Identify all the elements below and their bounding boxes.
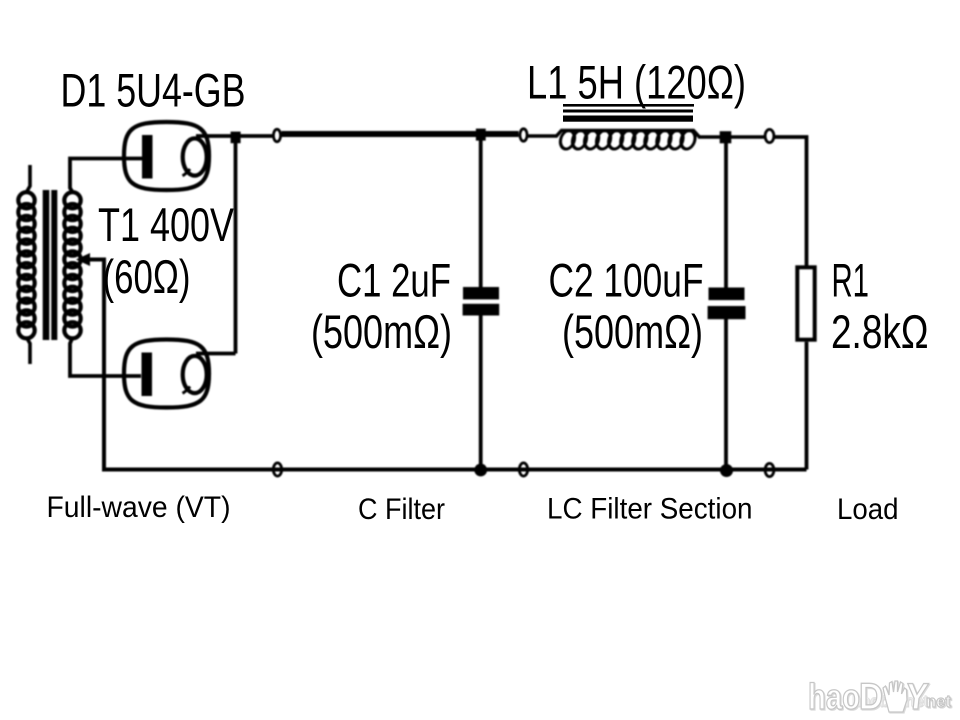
node port circle bottom right	[765, 463, 774, 476]
inductor L1 top line	[556, 131, 699, 137]
svg-text:Full-wave (VT): Full-wave (VT)	[47, 491, 231, 524]
junction C2 bottom	[720, 464, 733, 477]
svg-text:R1: R1	[832, 254, 870, 307]
tube D1 plate B	[142, 353, 153, 397]
watermark hand icon	[883, 681, 907, 712]
svg-text:Load: Load	[837, 493, 899, 526]
watermark haoDIY.net	[808, 675, 951, 717]
tube D1 cathode A tail	[183, 169, 191, 176]
svg-text:C1 2uF: C1 2uF	[337, 254, 451, 307]
junction cathode node	[231, 132, 241, 144]
wire L1 to junction	[698, 135, 722, 139]
inductor L1 core thin line	[563, 110, 693, 113]
svg-text:D: D	[859, 676, 883, 717]
node port circle left top	[273, 129, 280, 141]
inductor L1 loops	[559, 131, 696, 149]
wire secondary top lead to tube plate	[70, 159, 142, 193]
wire C1 top vertical	[479, 137, 483, 288]
capacitor C2 top plate	[709, 288, 745, 301]
tube D1 section B envelope	[124, 340, 209, 408]
wire C1 bottom vertical	[479, 316, 483, 470]
wire top bus thick segment 1	[282, 131, 478, 137]
svg-text:(60Ω): (60Ω)	[103, 250, 191, 303]
svg-text:D1 5U4-GB: D1 5U4-GB	[61, 64, 246, 117]
node port circle before L1	[520, 129, 527, 141]
node port circle bottom left	[273, 463, 281, 476]
junction C1 bottom	[474, 464, 487, 477]
wire junction to port	[731, 135, 765, 139]
node port circle bottom middle	[519, 463, 527, 476]
svg-text:L1 5H (120Ω): L1 5H (120Ω)	[527, 56, 746, 109]
svg-text:C2 100uF: C2 100uF	[549, 254, 704, 307]
wire to R1 top corner	[775, 137, 807, 266]
svg-text:LC Filter Section: LC Filter Section	[547, 493, 753, 526]
wire C2 bottom vertical	[724, 319, 728, 470]
inductor L1 core thick line	[563, 116, 693, 122]
junction C1 top	[476, 129, 486, 141]
svg-text:net: net	[926, 692, 951, 711]
wire cathode bus vertical	[234, 137, 238, 354]
svg-text:hao: hao	[808, 676, 860, 717]
wire to L1	[528, 134, 558, 138]
svg-text:2.8kΩ: 2.8kΩ	[831, 305, 929, 358]
transformer T1 primary top lead	[27, 165, 31, 192]
wire center tap to ground riser	[86, 260, 104, 470]
wire secondary bottom lead to tube plate	[70, 338, 141, 377]
capacitor C2 bottom plate	[708, 306, 746, 319]
capacitor C1 bottom plate	[463, 304, 500, 316]
svg-text:(500mΩ): (500mΩ)	[311, 305, 452, 358]
tube D1 cathode B	[183, 356, 207, 393]
transformer T1 primary winding	[18, 192, 34, 338]
resistor R1 body	[797, 267, 814, 339]
wire cathode B to bus	[196, 352, 236, 356]
tube D1 section A envelope	[124, 122, 209, 190]
tube D1 cathode A	[183, 138, 207, 175]
node port circle after L1	[765, 129, 774, 142]
L1 label underline	[563, 104, 694, 107]
svg-text:(500mΩ): (500mΩ)	[562, 305, 703, 358]
wire C2 top vertical	[724, 137, 728, 288]
capacitor C1 top plate	[463, 287, 499, 299]
wire R1 bottom	[805, 342, 809, 470]
svg-text:C Filter: C Filter	[358, 493, 445, 526]
wire cathode A to node	[196, 134, 274, 138]
transformer T1 core	[43, 190, 58, 340]
tube D1 cathode B tail	[183, 387, 191, 394]
ground bus wire	[102, 468, 807, 472]
transformer T1 primary bottom lead	[27, 338, 31, 365]
tube D1 plate A	[142, 135, 153, 179]
wire top bus thick segment 2	[485, 131, 519, 137]
transformer center tap arrow	[76, 253, 90, 266]
svg-text:T1 400V: T1 400V	[98, 198, 234, 251]
transformer T1 secondary winding	[64, 192, 80, 338]
junction C2 top	[720, 131, 732, 143]
